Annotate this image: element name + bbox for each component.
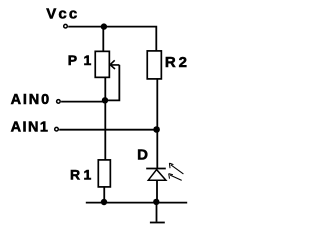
wire wiper down to node A — [105, 65, 119, 101]
svg-text:AIN1: AIN1 — [11, 119, 50, 135]
wire P1 bottom to R1 top — [104, 77, 106, 160]
svg-text:1: 1 — [84, 167, 92, 183]
LED light arrow upper — [169, 163, 183, 174]
diode D cathode bar — [146, 168, 166, 170]
potentiometer wiper arrow — [110, 60, 119, 69]
node D/rail — [153, 199, 159, 205]
wire AIN1 to node B — [59, 129, 156, 131]
node R1/rail — [101, 199, 107, 205]
terminal AIN0 — [57, 100, 61, 104]
wire top rail junction to R2 corner — [104, 27, 156, 51]
LED light arrow lower — [169, 174, 182, 181]
ground — [150, 222, 165, 224]
wire junction down to P1 top — [102, 27, 104, 52]
svg-text:R: R — [165, 54, 176, 71]
svg-text:1: 1 — [84, 52, 92, 68]
node A (wiper/AIN0 junction) — [102, 97, 108, 103]
terminal Vcc — [64, 24, 68, 28]
potentiometer P1 body — [95, 51, 109, 77]
resistor R1 body — [98, 160, 110, 187]
wire R1 bottom to rail — [103, 187, 105, 203]
terminal AIN1 — [55, 127, 59, 131]
svg-text:2: 2 — [179, 54, 187, 71]
wire AIN0 to node A — [61, 101, 104, 103]
svg-text:D: D — [137, 146, 148, 163]
node B (AIN1/R2/D junction) — [153, 126, 160, 133]
wire R2 bottom to node B — [156, 79, 158, 130]
wire node B to diode D — [156, 130, 158, 169]
node top junction — [101, 23, 107, 29]
wire rail to ground — [156, 203, 158, 222]
resistor R2 body — [147, 51, 161, 79]
diode D triangle — [148, 170, 166, 181]
svg-text:AIN0: AIN0 — [11, 92, 51, 108]
bottom rail wire — [86, 202, 187, 204]
svg-text:P: P — [68, 52, 77, 68]
svg-text:Vcc: Vcc — [46, 5, 79, 22]
wire diode to rail — [156, 180, 158, 202]
wire Vcc terminal to top junction — [68, 26, 104, 28]
svg-text:R: R — [70, 167, 80, 183]
